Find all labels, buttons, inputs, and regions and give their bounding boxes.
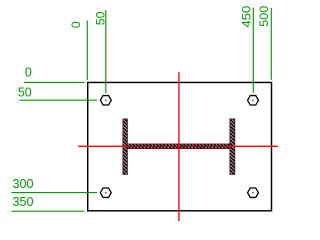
svg-text:500: 500 <box>257 5 271 26</box>
ordinate dimension left 350 <box>12 194 85 211</box>
ordinate dimension left 0 <box>24 64 85 82</box>
svg-text:350: 350 <box>13 194 34 209</box>
svg-text:50: 50 <box>18 84 32 99</box>
centerline horizontal over left flange <box>122 145 128 147</box>
ordinate dimension top 0 <box>69 21 87 81</box>
plate outline <box>88 82 272 210</box>
ordinate dimension left 300 <box>12 176 98 193</box>
svg-text:450: 450 <box>239 5 253 27</box>
ordinate dimension left 50 <box>18 84 97 100</box>
centerline vertical <box>178 72 180 221</box>
bolt hole bottom-right <box>248 188 259 197</box>
svg-text:300: 300 <box>13 176 34 191</box>
svg-text:0: 0 <box>69 21 83 28</box>
centerline horizontal over right flange <box>229 145 235 147</box>
svg-text:0: 0 <box>25 64 32 79</box>
ordinate dimension top 450 <box>239 5 253 92</box>
ordinate dimension top 50 <box>94 10 108 93</box>
ordinate dimension top 500 <box>257 5 272 79</box>
I-beam web <box>127 144 229 149</box>
centerline horizontal dashed across web <box>127 145 229 147</box>
bolt hole top-left <box>100 96 111 105</box>
centerline horizontal <box>78 145 278 147</box>
bolt hole top-right <box>248 96 259 105</box>
I-beam left flange <box>123 119 128 174</box>
bolt hole bottom-left <box>100 188 111 197</box>
I-beam right flange <box>230 119 235 174</box>
